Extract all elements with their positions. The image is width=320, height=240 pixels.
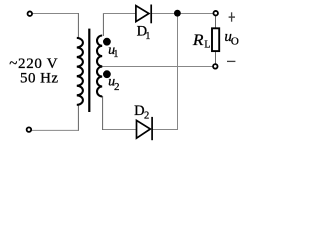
transformer secondary lower winding u2 — [97, 67, 102, 97]
junction node dot — [174, 10, 181, 17]
svg-text:1: 1 — [113, 49, 118, 60]
svg-text:~220 V: ~220 V — [9, 56, 58, 72]
wire secondary top lead — [102, 13, 104, 36]
svg-text:1: 1 — [145, 31, 150, 42]
svg-text:R: R — [192, 32, 204, 49]
svg-text:2: 2 — [114, 81, 120, 93]
resistor RL — [212, 28, 219, 51]
input terminal bottom-left — [27, 127, 32, 132]
wire resistor bottom lead — [215, 51, 217, 64]
wire secondary bottom to D2 anode — [102, 129, 136, 131]
wire center tap to minus terminal — [102, 66, 213, 68]
wire secondary bottom lead — [102, 96, 104, 130]
svg-text:D: D — [134, 103, 144, 119]
polarity dot winding u1 — [103, 38, 111, 46]
wire vertical from junction down to D2 branch — [177, 14, 179, 131]
wire resistor top lead — [215, 15, 217, 28]
transformer core — [88, 29, 90, 112]
svg-text:O: O — [231, 36, 239, 48]
transformer T primary winding — [77, 38, 83, 105]
label minus — [227, 60, 235, 62]
wire D1 cathode to + terminal — [152, 13, 214, 15]
input terminal top-left — [28, 11, 33, 16]
wire bottom-left horizontal to lower input terminal — [31, 129, 79, 131]
output terminal plus — [213, 11, 218, 16]
wire primary top lead — [77, 13, 79, 39]
polarity dot winding u2 — [103, 70, 111, 78]
transformer secondary upper winding u1 — [97, 36, 102, 67]
label plus — [229, 12, 235, 21]
wire primary bottom lead — [77, 105, 79, 131]
svg-text:50 Hz: 50 Hz — [20, 71, 59, 87]
diode D2 — [137, 117, 153, 140]
wire top-left horizontal from input terminal to primary — [32, 13, 78, 15]
wire D2 cathode to vertical riser — [153, 129, 178, 131]
svg-text:2: 2 — [144, 110, 149, 121]
svg-text:L: L — [204, 39, 210, 50]
output terminal minus — [213, 64, 218, 69]
wire secondary top to D1 anode — [103, 13, 136, 15]
diode D1 — [136, 5, 151, 24]
